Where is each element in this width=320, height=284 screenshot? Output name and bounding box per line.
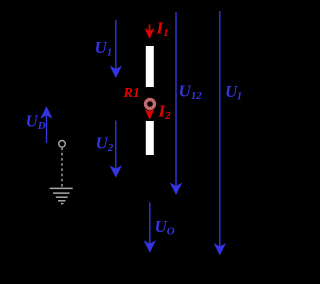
ground symbol — [50, 188, 73, 203]
current arrow I2 (at wiper) — [146, 110, 153, 118]
svg-text:R1: R1 — [123, 86, 140, 101]
current arrow I1 — [146, 25, 153, 38]
voltage arrow UO — [145, 203, 154, 252]
voltage arrow U12 — [172, 12, 181, 193]
wiper contact node (ring) — [146, 100, 155, 109]
wiper output terminal (circle) — [59, 141, 66, 148]
voltage arrow UI — [215, 11, 224, 254]
voltage arrow UD (pointing up) — [42, 108, 51, 143]
voltage arrow U2 — [111, 121, 120, 177]
resistor R1 lower body — [146, 121, 154, 155]
resistor R1 upper body — [146, 46, 154, 87]
voltage arrow U1 — [111, 20, 120, 76]
dashed wire to ground — [61, 148, 63, 188]
